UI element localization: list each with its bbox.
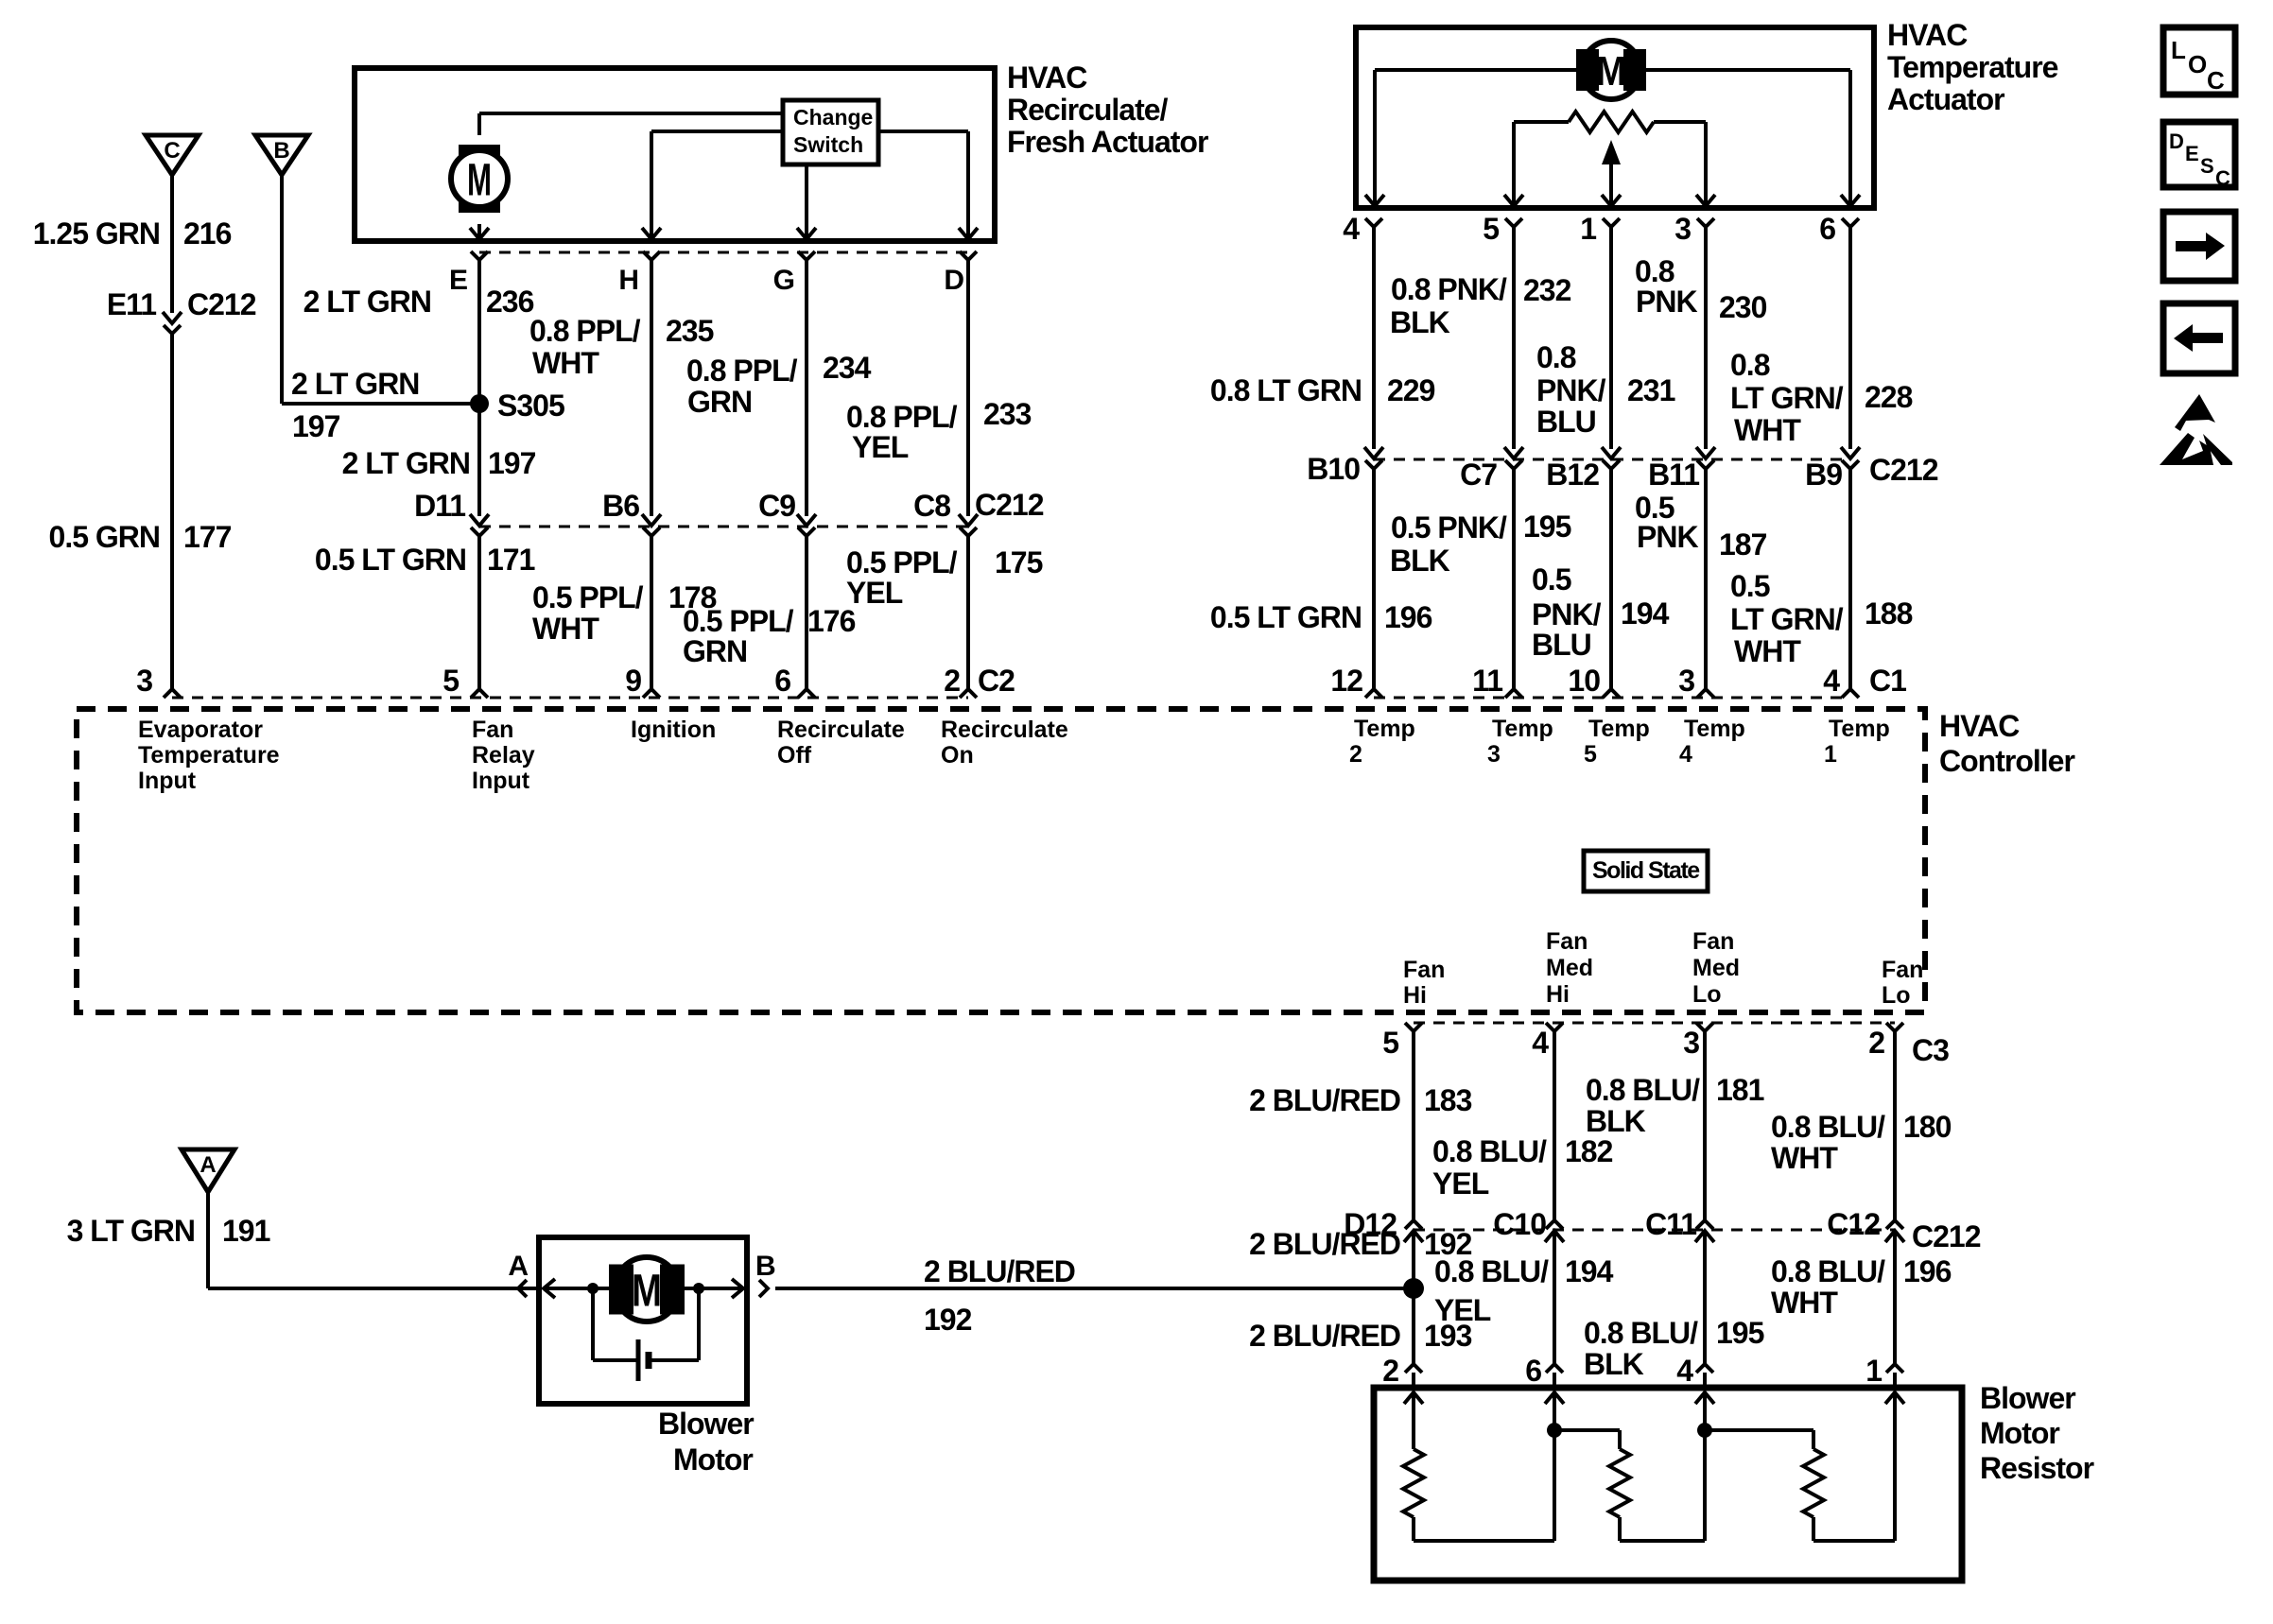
wire: C9 to controller pin 6 xyxy=(805,536,808,690)
wire: motor to right side xyxy=(683,1287,743,1290)
svg-text:0.8 BLU/: 0.8 BLU/ xyxy=(1432,1134,1547,1168)
label: 0.5 PPL/YEL 175 xyxy=(846,545,1043,610)
svg-text:Input: Input xyxy=(472,768,530,794)
in-line connector E11 / C212 on wire C xyxy=(107,287,256,334)
motor M inside temperature actuator xyxy=(1576,41,1646,99)
wire: resistor end to pin 5 xyxy=(1512,122,1516,204)
svg-text:Blower: Blower xyxy=(658,1407,754,1441)
svg-text:HVAC: HVAC xyxy=(1939,709,2020,743)
arrow at pin 5 inside box xyxy=(1504,195,1523,206)
svg-text:Temp: Temp xyxy=(1354,716,1415,742)
svg-text:3 LT GRN: 3 LT GRN xyxy=(67,1214,195,1248)
wire: Fan Med Hi pin 4 to C212 pin C10 xyxy=(1553,1031,1556,1221)
pin 6 of C2 xyxy=(774,664,815,698)
svg-text:4: 4 xyxy=(1343,212,1360,246)
svg-text:2 LT GRN: 2 LT GRN xyxy=(342,446,470,480)
svg-text:0.8 BLU/: 0.8 BLU/ xyxy=(1771,1110,1885,1144)
svg-text:Hi: Hi xyxy=(1546,981,1570,1008)
svg-text:E: E xyxy=(449,265,467,296)
label: 2 LT GRN 236 xyxy=(304,285,534,319)
pin 5 of C2 xyxy=(442,664,488,698)
svg-text:5: 5 xyxy=(1584,741,1597,768)
svg-text:BLK: BLK xyxy=(1584,1347,1644,1381)
Solid State box xyxy=(1584,851,1708,891)
svg-text:Temperature: Temperature xyxy=(1887,50,2058,84)
svg-text:228: 228 xyxy=(1865,380,1913,414)
arrow out of blower motor box (right) xyxy=(732,1279,743,1298)
svg-text:BLK: BLK xyxy=(1390,544,1450,578)
svg-text:L: L xyxy=(2171,36,2186,64)
svg-text:LT GRN/: LT GRN/ xyxy=(1730,381,1844,415)
svg-text:2 BLU/RED: 2 BLU/RED xyxy=(1249,1227,1400,1261)
svg-text:C7: C7 xyxy=(1460,458,1497,492)
svg-text:0.5 LT GRN: 0.5 LT GRN xyxy=(315,543,466,577)
svg-text:B6: B6 xyxy=(602,489,639,523)
wire: D12 to blower motor resistor pin 2 xyxy=(1412,1231,1415,1364)
wiper arrow to pin 1 xyxy=(1602,140,1621,204)
svg-text:9: 9 xyxy=(625,664,641,698)
label: Blower Motor Resistor xyxy=(1980,1381,2094,1485)
label: 2 BLU/RED 193 xyxy=(1249,1319,1472,1353)
svg-text:B11: B11 xyxy=(1648,458,1699,492)
svg-text:0.8 BLU/: 0.8 BLU/ xyxy=(1771,1254,1885,1288)
svg-text:2: 2 xyxy=(1868,1026,1884,1060)
svg-text:D11: D11 xyxy=(414,489,465,523)
svg-text:C: C xyxy=(2207,66,2225,95)
label: 0.5 LT GRN/WHT 188 xyxy=(1730,569,1913,668)
svg-text:188: 188 xyxy=(1865,596,1913,631)
pin H xyxy=(618,251,660,296)
svg-text:194: 194 xyxy=(1565,1254,1614,1288)
arrow into resistor box on pin 4 wire xyxy=(1695,1392,1714,1541)
pin 9 of C2 xyxy=(625,664,660,698)
connector line of recirculate actuator (pins E H G D) xyxy=(479,251,968,254)
wire: B12 to controller pin 10 xyxy=(1609,469,1613,690)
connector C3 line at HVAC controller xyxy=(1414,1022,1895,1025)
label: Fan Med Hi xyxy=(1546,928,1593,1008)
pin B12 of C212 xyxy=(1546,447,1621,492)
wire: junction to resistor R3 xyxy=(1705,1430,1813,1449)
svg-text:0.8 PPL/: 0.8 PPL/ xyxy=(529,314,641,348)
svg-text:171: 171 xyxy=(487,543,535,577)
label: Temp 4 xyxy=(1679,716,1745,768)
svg-text:C: C xyxy=(164,138,180,164)
wire: pin G down to connector C212 pin C9 xyxy=(805,260,808,516)
wire: pin 5 to C212 pin C7 xyxy=(1512,227,1516,449)
svg-text:1: 1 xyxy=(1580,212,1596,246)
wire: 2 LT GRN circuit 197 from B to splice S305 xyxy=(282,175,479,404)
svg-text:G: G xyxy=(773,265,794,296)
pin B9 of C212 xyxy=(1805,447,1938,492)
svg-text:M: M xyxy=(467,155,492,205)
pin 5 of C3 xyxy=(1382,1023,1422,1060)
svg-text:0.8: 0.8 xyxy=(1635,254,1674,288)
svg-text:0.8 BLU/: 0.8 BLU/ xyxy=(1586,1073,1700,1107)
svg-text:Resistor: Resistor xyxy=(1980,1451,2094,1485)
wire: change switch to pin D xyxy=(878,131,968,237)
svg-text:YEL: YEL xyxy=(852,430,909,464)
arrow at pin E inside box xyxy=(470,228,489,239)
svg-text:Change: Change xyxy=(793,105,873,130)
legend: ESD warning symbol xyxy=(2160,394,2232,465)
svg-text:0.8 PNK/: 0.8 PNK/ xyxy=(1391,272,1507,306)
svg-text:0.8 PPL/: 0.8 PPL/ xyxy=(686,354,798,388)
label: 0.8 LT GRN 229 xyxy=(1210,373,1435,407)
label: 0.5 PNK 187 xyxy=(1635,491,1767,561)
label: 0.8 BLU/BLK 181 xyxy=(1586,1073,1764,1138)
pin C12 of C212 xyxy=(1827,1207,1980,1253)
svg-text:230: 230 xyxy=(1719,290,1767,324)
svg-text:BLK: BLK xyxy=(1390,305,1450,339)
wire: pin D down to connector C212 pin C8 xyxy=(966,260,970,516)
label: 2 BLU/RED 192 xyxy=(924,1254,1075,1337)
pin 11 of C1 xyxy=(1472,664,1522,698)
HVAC Controller box (dashed) xyxy=(77,709,1925,1012)
svg-text:PNK: PNK xyxy=(1636,285,1697,319)
svg-text:B12: B12 xyxy=(1546,458,1599,492)
wire: 2 BLU/RED 192 from blower motor to Fan Hi junction xyxy=(775,1287,1414,1290)
svg-text:A: A xyxy=(508,1251,528,1282)
label: 2 LT GRN 197 (B branch) xyxy=(291,367,419,443)
pin 3 of HVAC controller connector C2 xyxy=(136,664,181,698)
svg-text:D: D xyxy=(2169,130,2184,153)
wire: C8 to controller pin 2 xyxy=(966,536,970,690)
svg-text:197: 197 xyxy=(488,446,536,480)
svg-text:WHT: WHT xyxy=(1734,634,1801,668)
label: 0.5 PPL/WHT 178 xyxy=(532,580,717,646)
connector triangle B xyxy=(255,135,308,175)
label: 1.25 GRN 216 xyxy=(33,216,232,251)
svg-text:1.25 GRN: 1.25 GRN xyxy=(33,216,160,251)
svg-text:195: 195 xyxy=(1716,1316,1764,1350)
label: Temp 3 xyxy=(1487,716,1553,768)
connector C212 crossing line (left, pins D11 B6 C9 C8) xyxy=(479,526,968,528)
svg-text:11: 11 xyxy=(1472,664,1502,698)
pin C8 of C212 xyxy=(913,488,1044,536)
arrow at pin G inside box xyxy=(797,228,816,239)
label: 0.8 PNK/BLU 231 xyxy=(1536,340,1675,439)
wire: motor to change switch xyxy=(479,113,783,135)
svg-text:3: 3 xyxy=(1674,212,1691,246)
svg-text:Motor: Motor xyxy=(673,1443,753,1477)
svg-text:WHT: WHT xyxy=(1771,1141,1838,1175)
HVAC Recirculate/Fresh Actuator box xyxy=(355,68,995,241)
svg-text:Recirculate: Recirculate xyxy=(777,717,905,743)
label: 0.8 PNK/BLK 232 xyxy=(1390,272,1571,339)
label: 0.8 PPL/WHT 235 xyxy=(529,314,714,380)
svg-text:4: 4 xyxy=(1823,664,1840,698)
wire: junction to resistor R2 xyxy=(1554,1430,1620,1449)
svg-text:Fan: Fan xyxy=(1403,957,1445,983)
svg-text:C12: C12 xyxy=(1827,1207,1880,1241)
svg-text:GRN: GRN xyxy=(687,385,752,419)
svg-text:231: 231 xyxy=(1627,373,1675,407)
pin D12 of C212 xyxy=(1344,1207,1423,1242)
svg-text:2: 2 xyxy=(1349,741,1362,768)
label: HVAC Controller xyxy=(1939,709,2074,778)
svg-text:Fan: Fan xyxy=(1882,957,1923,983)
svg-text:232: 232 xyxy=(1523,273,1571,307)
junction left of motor xyxy=(587,1283,599,1294)
svg-text:233: 233 xyxy=(983,397,1032,431)
svg-text:216: 216 xyxy=(183,216,232,251)
svg-text:S: S xyxy=(2200,154,2214,178)
pin 6 below temperature actuator xyxy=(1819,212,1859,246)
svg-text:6: 6 xyxy=(774,664,790,698)
wire: pin 3 to C212 pin B11 xyxy=(1704,227,1708,449)
svg-text:1: 1 xyxy=(1824,741,1837,768)
wire: resistor end to pin 3 xyxy=(1704,122,1708,204)
svg-text:GRN: GRN xyxy=(683,634,747,668)
svg-text:PNK: PNK xyxy=(1637,520,1698,554)
pin 1 of blower motor resistor xyxy=(1865,1354,1903,1388)
svg-text:E11: E11 xyxy=(107,287,156,321)
connector C2 line at HVAC controller xyxy=(172,697,968,700)
pin B11 of C212 xyxy=(1648,447,1715,492)
svg-text:Temp: Temp xyxy=(1684,716,1745,742)
wire: motor to pin E xyxy=(477,224,481,237)
resistor R1 (Fan Hi element) xyxy=(1403,1449,1424,1541)
wire: B6 to controller pin 9 xyxy=(650,536,653,690)
svg-text:Solid State: Solid State xyxy=(1592,857,1700,884)
junction on pin 4 leg xyxy=(1697,1423,1712,1438)
label: 0.8 PPL/GRN 234 xyxy=(686,351,872,419)
svg-text:3: 3 xyxy=(1487,741,1501,768)
wire: Fan Hi pin 5 to C212 pin D12 xyxy=(1412,1031,1415,1221)
pin 1 below temperature actuator xyxy=(1580,212,1620,246)
svg-text:6: 6 xyxy=(1525,1354,1541,1388)
label: 0.8 BLU/BLK 195 xyxy=(1584,1316,1764,1381)
pin 10 of C1 xyxy=(1568,664,1620,698)
label: 0.8 BLU/YEL 182 xyxy=(1432,1134,1613,1201)
svg-text:12: 12 xyxy=(1330,664,1362,698)
wire: C11 to resistor pin 4 xyxy=(1703,1231,1707,1364)
label: Temp 5 xyxy=(1584,716,1650,768)
label: Fan Lo xyxy=(1882,957,1923,1009)
svg-text:H: H xyxy=(618,265,638,296)
svg-text:Evaporator: Evaporator xyxy=(138,717,263,743)
svg-text:Temperature: Temperature xyxy=(138,742,280,769)
svg-text:C: C xyxy=(2215,166,2230,190)
svg-text:1: 1 xyxy=(1865,1354,1882,1388)
label: 0.8 BLU/WHT 180 xyxy=(1771,1110,1952,1175)
svg-text:191: 191 xyxy=(222,1214,270,1248)
label: Blower Motor xyxy=(658,1407,754,1477)
label: HVAC Temperature Actuator xyxy=(1887,18,2058,116)
label: Temp 2 xyxy=(1349,716,1415,768)
svg-text:181: 181 xyxy=(1716,1073,1764,1107)
pin 2 of C2 xyxy=(944,664,1015,698)
pin D11 of C212 xyxy=(414,489,489,536)
potentiometer resistor inside temperature actuator xyxy=(1514,112,1706,132)
pin C10 of C212 xyxy=(1493,1207,1564,1242)
label: 0.5 PPL/GRN 176 xyxy=(683,604,856,668)
svg-text:E: E xyxy=(2185,142,2199,165)
svg-text:234: 234 xyxy=(823,351,872,385)
pin 3 below temperature actuator xyxy=(1674,212,1714,246)
svg-text:A: A xyxy=(200,1152,216,1178)
junction right of motor xyxy=(693,1283,704,1294)
svg-text:YEL: YEL xyxy=(1434,1293,1491,1327)
svg-text:B10: B10 xyxy=(1307,452,1360,486)
svg-text:2 BLU/RED: 2 BLU/RED xyxy=(1249,1083,1400,1117)
connector triangle A xyxy=(182,1149,234,1192)
label: Ignition xyxy=(631,717,716,743)
legend: right arrow box xyxy=(2163,212,2235,281)
svg-text:Blower: Blower xyxy=(1980,1381,2075,1415)
battery symbol inside blower motor xyxy=(593,1288,699,1381)
svg-text:B9: B9 xyxy=(1805,458,1842,492)
pin B10 of C212 xyxy=(1307,447,1383,486)
svg-text:2 BLU/RED: 2 BLU/RED xyxy=(1249,1319,1400,1353)
svg-text:2 BLU/RED: 2 BLU/RED xyxy=(924,1254,1075,1288)
wire: pin 1 to C212 pin B12 xyxy=(1609,227,1613,449)
svg-text:Fan: Fan xyxy=(472,717,513,743)
junction on pin 6 leg xyxy=(1547,1423,1562,1438)
svg-text:Fresh Actuator: Fresh Actuator xyxy=(1007,125,1208,159)
connector C212 crossing line (right, pins B10 C7 B12 B11 B9) xyxy=(1374,458,1850,461)
svg-text:Actuator: Actuator xyxy=(1887,82,2004,116)
svg-text:0.5 PNK/: 0.5 PNK/ xyxy=(1391,510,1507,544)
svg-text:196: 196 xyxy=(1903,1254,1952,1288)
svg-text:Temp: Temp xyxy=(1492,716,1553,742)
arrow at pin 3 inside box xyxy=(1696,195,1715,206)
pin 5 below temperature actuator xyxy=(1483,212,1522,246)
svg-text:C3: C3 xyxy=(1912,1033,1949,1067)
HVAC Temperature Actuator box xyxy=(1356,27,1874,208)
splice S305 xyxy=(470,389,564,423)
svg-text:M: M xyxy=(1596,48,1626,95)
wire: C7 to controller pin 11 xyxy=(1512,469,1516,690)
label: Evaporator Temperature Input xyxy=(138,717,280,794)
Blower Motor Resistor box xyxy=(1374,1388,1962,1581)
svg-text:YEL: YEL xyxy=(846,576,903,610)
svg-text:WHT: WHT xyxy=(532,346,599,380)
label: 0.5 PNK/BLK 195 xyxy=(1390,510,1571,578)
svg-text:Med: Med xyxy=(1692,955,1740,981)
legend: left arrow box xyxy=(2163,303,2235,373)
connector triangle C xyxy=(146,135,199,175)
svg-text:180: 180 xyxy=(1903,1110,1952,1144)
svg-text:4: 4 xyxy=(1532,1026,1549,1060)
svg-text:0.8 PPL/: 0.8 PPL/ xyxy=(846,400,958,434)
svg-text:C11: C11 xyxy=(1645,1207,1696,1241)
pin C7 of C212 xyxy=(1460,447,1523,492)
svg-text:0.5 PPL/: 0.5 PPL/ xyxy=(846,545,958,579)
pin E xyxy=(449,251,488,296)
arrow into resistor box on pin 1 wire xyxy=(1885,1392,1904,1541)
svg-text:WHT: WHT xyxy=(1771,1286,1838,1320)
svg-text:LT GRN/: LT GRN/ xyxy=(1730,602,1844,636)
svg-text:PNK/: PNK/ xyxy=(1532,597,1602,631)
svg-text:0.8: 0.8 xyxy=(1730,348,1770,382)
svg-text:192: 192 xyxy=(924,1303,972,1337)
pin 6 of blower motor resistor xyxy=(1525,1354,1563,1388)
svg-text:B: B xyxy=(273,138,289,164)
label: 0.8 BLU/WHT 196 xyxy=(1771,1254,1952,1320)
svg-text:M: M xyxy=(632,1266,662,1316)
svg-text:BLU: BLU xyxy=(1532,628,1591,662)
svg-text:On: On xyxy=(941,742,974,769)
svg-text:HVAC: HVAC xyxy=(1007,60,1087,95)
svg-text:6: 6 xyxy=(1819,212,1835,246)
label: 0.5 PNK/BLU 194 xyxy=(1532,562,1670,662)
svg-text:0.5 PPL/: 0.5 PPL/ xyxy=(683,604,794,638)
arrow at pin 4 inside box xyxy=(1365,195,1384,206)
svg-text:Relay: Relay xyxy=(472,742,535,769)
svg-text:Motor: Motor xyxy=(1980,1416,2059,1450)
label: Fan Hi xyxy=(1403,957,1445,1009)
svg-text:O: O xyxy=(2188,50,2207,78)
connector C1 line at HVAC controller xyxy=(1374,697,1850,700)
svg-text:C212: C212 xyxy=(975,488,1044,522)
junction: blower motor feed to Fan Hi wire xyxy=(1403,1278,1424,1299)
wire: B11 to controller pin 3 xyxy=(1704,469,1708,690)
svg-text:0.8 BLU/: 0.8 BLU/ xyxy=(1584,1316,1698,1350)
svg-text:0.5: 0.5 xyxy=(1532,562,1571,596)
svg-text:0.5: 0.5 xyxy=(1730,569,1770,603)
svg-text:2: 2 xyxy=(944,664,960,698)
label: 2 BLU/RED 183 xyxy=(1249,1083,1472,1117)
svg-text:C212: C212 xyxy=(187,287,256,321)
pin A of blower motor xyxy=(508,1251,528,1297)
svg-text:0.8 LT GRN: 0.8 LT GRN xyxy=(1210,373,1362,407)
resistor R3 (Fan Lo element) xyxy=(1803,1449,1824,1541)
svg-text:187: 187 xyxy=(1719,527,1767,561)
wire: 3 LT GRN circuit 191 from A to blower motor xyxy=(208,1192,539,1288)
arrow at pin 1 inside box xyxy=(1602,195,1621,206)
svg-text:Off: Off xyxy=(777,742,812,769)
svg-text:0.8 BLU/: 0.8 BLU/ xyxy=(1434,1254,1549,1288)
label: 0.8 PPL/YEL 233 xyxy=(846,397,1032,464)
svg-text:Lo: Lo xyxy=(1692,981,1722,1008)
label: Fan Med Lo xyxy=(1692,928,1740,1008)
wire: C10 to resistor pin 6 xyxy=(1553,1231,1556,1364)
svg-text:C1: C1 xyxy=(1869,664,1906,698)
svg-text:Switch: Switch xyxy=(793,132,863,157)
svg-text:C212: C212 xyxy=(1869,453,1938,487)
svg-text:HVAC: HVAC xyxy=(1887,18,1968,52)
svg-text:C9: C9 xyxy=(758,489,795,523)
svg-text:194: 194 xyxy=(1621,596,1670,631)
wire: Fan Med Lo pin 3 to C212 pin C11 xyxy=(1703,1031,1707,1221)
label: Temp 1 xyxy=(1824,716,1890,768)
svg-text:0.8: 0.8 xyxy=(1536,340,1576,374)
connector C212 crossing line (fan wires, pins D12 C10 C11 C12) xyxy=(1414,1229,1895,1232)
wire: 0.5 GRN circuit 177 from C212 to HVAC controller pin 3 xyxy=(170,334,174,690)
label: Recirculate On xyxy=(941,717,1068,769)
pin 2 of C3 xyxy=(1868,1023,1949,1067)
svg-text:2 LT GRN: 2 LT GRN xyxy=(291,367,419,401)
svg-text:WHT: WHT xyxy=(1734,413,1801,447)
arrow into resistor box on pin 6 wire xyxy=(1545,1392,1564,1541)
label: 0.5 LT GRN 196 xyxy=(1210,600,1432,634)
svg-text:C212: C212 xyxy=(1912,1219,1981,1253)
label: 0.8 LT GRN/WHT 228 xyxy=(1730,348,1913,447)
label: 0.8 PNK 230 xyxy=(1635,254,1767,324)
wire: pin E down through S305 to connector C212 pin D11 xyxy=(477,260,481,516)
wire: pin 4 to C212 pin B10 xyxy=(1372,227,1376,449)
svg-text:Input: Input xyxy=(138,768,197,794)
svg-text:5: 5 xyxy=(442,664,459,698)
wire: pin 6 to C212 pin B9 xyxy=(1848,227,1852,449)
legend: LOC box xyxy=(2163,27,2235,95)
wire: Fan Lo pin 2 to C212 pin C12 xyxy=(1893,1031,1897,1221)
svg-text:3: 3 xyxy=(1678,664,1694,698)
svg-text:D: D xyxy=(944,265,963,296)
wire: D11 to controller pin 5 xyxy=(477,536,481,690)
svg-text:C8: C8 xyxy=(913,489,950,523)
